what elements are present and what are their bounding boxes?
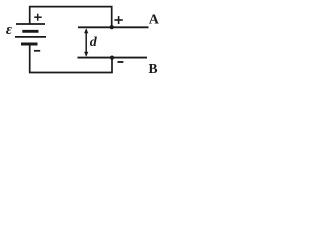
battery plate 4 (short, thick): [21, 43, 38, 46]
bottom plate / lead to terminal B: [78, 57, 148, 59]
- label near terminal B: [118, 61, 124, 63]
battery + polarity mark: [34, 14, 42, 21]
battery - polarity mark: [34, 50, 40, 52]
svg-text:d: d: [90, 35, 98, 50]
battery plate 3 (long): [15, 36, 46, 38]
svg-text:B: B: [149, 61, 158, 76]
+ label near terminal A: [114, 16, 122, 24]
svg-text:ε: ε: [6, 22, 13, 38]
top plate / lead to terminal A: [78, 26, 149, 28]
wire: battery top vertical + top wire + right vertical down to top plate: [30, 7, 112, 27]
svg-text:A: A: [149, 13, 160, 28]
gap dimension arrow d (double-headed): [84, 28, 88, 57]
junction dot bottom: [110, 56, 114, 60]
battery plate 1 (long, +): [16, 23, 45, 25]
wire: battery bottom vertical + bottom wire + right vertical up to bottom plate: [30, 45, 112, 73]
battery plate 2 (short, thick): [22, 30, 38, 33]
junction dot top: [110, 25, 114, 29]
